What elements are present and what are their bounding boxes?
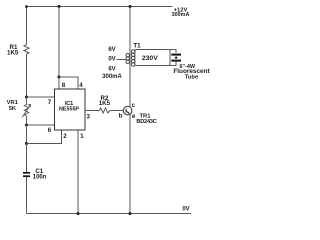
svg-text:1K5: 1K5 bbox=[7, 50, 19, 57]
svg-text:4: 4 bbox=[79, 82, 83, 89]
svg-text:NE555P: NE555P bbox=[59, 107, 79, 113]
svg-text:BD243C: BD243C bbox=[136, 119, 156, 125]
wire tube top lead bbox=[170, 50, 176, 54]
svg-text:T1: T1 bbox=[133, 42, 141, 49]
wire C1 to 0V rail bbox=[26, 177, 28, 214]
fluorescent tube electrode bottom bbox=[171, 60, 181, 62]
node VR1 bottom / pin6 junction bbox=[25, 124, 28, 127]
resistor R1 bbox=[24, 45, 29, 55]
svg-text:Tube: Tube bbox=[185, 75, 199, 81]
svg-text:2: 2 bbox=[63, 133, 67, 140]
node pin2 junction bbox=[25, 142, 28, 145]
resistor R2 bbox=[100, 108, 111, 113]
node pins 8-4 tie bbox=[58, 76, 61, 79]
wire collector drop bbox=[129, 7, 131, 108]
svg-text:8: 8 bbox=[62, 82, 66, 89]
node top rail to IC supply bbox=[58, 5, 61, 8]
fluorescent tube electrode top bbox=[171, 54, 181, 56]
node top-left corner bbox=[25, 5, 28, 8]
wire pin 4 bbox=[59, 77, 78, 89]
svg-text:300mA: 300mA bbox=[102, 74, 122, 80]
svg-text:0V: 0V bbox=[108, 57, 115, 63]
wire pin 7 bbox=[27, 96, 55, 98]
svg-text:e: e bbox=[132, 113, 136, 120]
wire node to C1 bbox=[26, 144, 28, 173]
svg-text:5K: 5K bbox=[9, 106, 17, 112]
svg-text:1K5: 1K5 bbox=[99, 100, 111, 107]
wire +12V top rail bbox=[26, 6, 173, 8]
svg-text:6V: 6V bbox=[108, 67, 115, 73]
transistor TR1 BD243C circle bbox=[123, 106, 132, 115]
wire left vertical upper (rail to R1) bbox=[26, 7, 28, 45]
svg-text:c: c bbox=[132, 102, 136, 109]
wire IC supply drop bbox=[58, 7, 60, 78]
wire pin 3 bbox=[85, 110, 100, 112]
wire 0V bottom rail bbox=[27, 213, 192, 215]
fluorescent tube plus mark bbox=[175, 56, 177, 59]
transformer T1 230V secondary box bbox=[135, 50, 170, 66]
IC IC1 NE555P body bbox=[55, 89, 86, 130]
wire VR1 to pin2 node bbox=[26, 125, 28, 144]
svg-text:6V: 6V bbox=[108, 47, 115, 53]
wire R2 to base bbox=[110, 110, 123, 112]
wire tube bottom lead bbox=[170, 62, 176, 66]
potentiometer VR1 bbox=[24, 97, 29, 125]
svg-text:6: 6 bbox=[48, 127, 52, 134]
svg-text:3: 3 bbox=[86, 113, 90, 120]
transistor TR1 base bar bbox=[125, 109, 127, 113]
node emitter to rail bbox=[129, 212, 132, 215]
wire pin 1 bbox=[77, 130, 79, 214]
svg-text:0V: 0V bbox=[182, 207, 189, 213]
transformer T1 primary coil bbox=[126, 53, 130, 57]
node pin1 to rail bbox=[77, 212, 80, 215]
wire pin 2 bbox=[27, 130, 62, 144]
node top rail to collector bbox=[129, 5, 132, 8]
wire R1 to VR1 node bbox=[26, 54, 28, 97]
capacitor C1 bbox=[23, 172, 30, 174]
wire pin 8 bbox=[58, 77, 60, 89]
transformer T1 secondary coil bbox=[131, 50, 135, 54]
wire emitter drop bbox=[129, 115, 131, 214]
node VR1 top / pin7 junction bbox=[25, 96, 28, 99]
wire 0V centre tap bbox=[117, 59, 127, 61]
svg-text:7: 7 bbox=[48, 99, 52, 106]
wiper arrow of VR1 bbox=[22, 104, 30, 117]
svg-text:1: 1 bbox=[80, 133, 84, 140]
svg-text:b: b bbox=[119, 112, 123, 119]
wire pin 6 bbox=[27, 124, 55, 126]
transistor TR1 emitter arrow bbox=[126, 111, 129, 113]
svg-text:300mA: 300mA bbox=[172, 12, 190, 18]
svg-text:100n: 100n bbox=[33, 174, 47, 180]
svg-text:230V: 230V bbox=[142, 55, 158, 62]
